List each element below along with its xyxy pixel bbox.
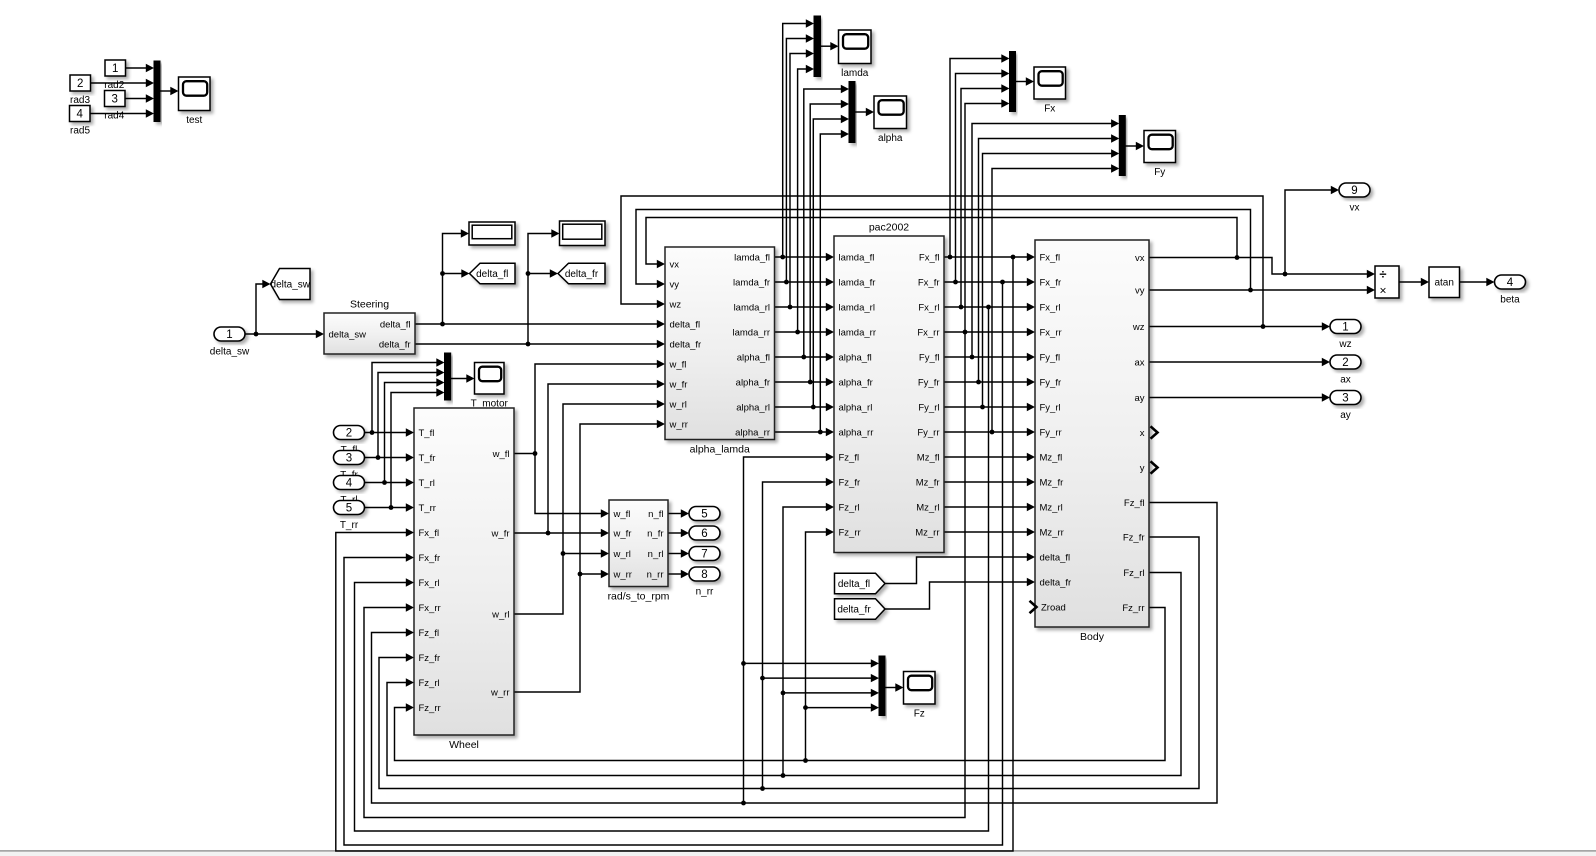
- wire vy feedback to alpha_lamda: [636, 210, 1251, 291]
- junction Fy tap Fy_fr: [976, 380, 981, 385]
- wire divide to atan: [1399, 281, 1422, 283]
- junction w_fl: [533, 451, 538, 456]
- svg-text:w_rr: w_rr: [669, 419, 688, 430]
- svg-text:rad4: rad4: [104, 110, 124, 121]
- wire Fz_fr to Fz mux: [763, 677, 872, 679]
- mux alpha: [849, 82, 855, 143]
- svg-text:delta_sw: delta_sw: [329, 329, 367, 340]
- wire Body wz to port 1: [1149, 326, 1323, 328]
- svg-text:ax: ax: [1340, 375, 1351, 386]
- svg-text:Fx_rr: Fx_rr: [1040, 327, 1062, 338]
- svg-text:Fx_rr: Fx_rr: [419, 603, 441, 614]
- wire alpha_lamda alpha_fr to pac2002: [775, 381, 827, 383]
- port 7 n_rl output: [689, 547, 720, 561]
- wire const rad2 to mux: [126, 67, 148, 69]
- wire lamda_fr tap to lamda mux: [786, 39, 806, 283]
- svg-text:Fy_rl: Fy_rl: [918, 402, 939, 413]
- svg-text:Mz_rl: Mz_rl: [916, 502, 939, 513]
- svg-text:ax: ax: [1134, 357, 1144, 368]
- wire pac2002 Fx_fl to Body: [944, 256, 1028, 258]
- junction Fz_rr to pac2002: [803, 758, 808, 763]
- svg-text:delta_fr: delta_fr: [1040, 577, 1072, 588]
- port 1 delta_sw input: [210, 327, 250, 358]
- port 2 ax output: [1330, 355, 1361, 386]
- Zroad unconnected chevron: [1030, 601, 1037, 613]
- svg-text:pac2002: pac2002: [869, 222, 909, 234]
- constant rad5: [70, 106, 91, 122]
- svg-text:delta_fl: delta_fl: [380, 319, 411, 330]
- svg-text:9: 9: [1351, 185, 1357, 197]
- wire alpha_lamda lamda_fr to pac2002: [775, 281, 827, 283]
- svg-text:2: 2: [1342, 357, 1348, 369]
- wire Wheel w_fl stub: [514, 453, 535, 455]
- svg-text:n_rl: n_rl: [648, 549, 664, 560]
- scope test: [179, 77, 211, 126]
- svg-text:w_fr: w_fr: [669, 379, 688, 390]
- wire Fx_fl tap to Fx mux: [950, 59, 1002, 258]
- svg-text:Fz_fl: Fz_fl: [1124, 498, 1145, 509]
- svg-text:Fz_fr: Fz_fr: [419, 653, 441, 664]
- junction Fx tap Fx_fr: [953, 280, 958, 285]
- svg-text:w_fl: w_fl: [613, 509, 631, 520]
- wire pac2002 Fy_fl to Body: [944, 356, 1028, 358]
- wire Wheel w_fr to rad/s: [514, 532, 602, 534]
- wire const rad5 to mux: [90, 113, 148, 115]
- junction Fz_rr to Fz mux: [803, 705, 808, 710]
- junction T_rr tap: [389, 505, 394, 510]
- subsystem Wheel: [414, 408, 514, 751]
- wire alpha_lamda lamda_rr to pac2002: [775, 331, 827, 333]
- svg-text:w_rr: w_rr: [613, 569, 632, 580]
- mux T_motor: [445, 353, 451, 400]
- svg-text:Mz_rl: Mz_rl: [1040, 502, 1063, 513]
- wire T_rr tap to T_motor mux: [391, 393, 437, 508]
- port 4 beta output: [1495, 275, 1526, 306]
- svg-text:Fz_rl: Fz_rl: [1123, 568, 1144, 579]
- junction lamda_fr tap: [784, 280, 789, 285]
- wire Fy_rr tap to Fy mux: [992, 169, 1112, 433]
- goto tag delta_fl: [470, 263, 516, 284]
- svg-text:wz: wz: [669, 299, 682, 310]
- junction w_fr: [546, 531, 551, 536]
- wire Fz_fl up to pac2002: [744, 457, 827, 803]
- from tag delta_fr: [835, 599, 886, 620]
- svg-text:alpha_rr: alpha_rr: [839, 427, 874, 438]
- wire Fz mux to scope: [885, 687, 896, 689]
- svg-text:test: test: [186, 115, 202, 126]
- svg-text:Zroad: Zroad: [1041, 602, 1066, 613]
- subsystem alpha_lamda: [665, 247, 775, 456]
- junction lamda_rl tap: [788, 305, 793, 310]
- svg-text:T_fl: T_fl: [419, 428, 435, 439]
- wire w_fr to alpha_lamda: [548, 384, 658, 533]
- port 8 n_rr output: [689, 567, 720, 598]
- svg-text:n_fr: n_fr: [647, 528, 663, 539]
- svg-text:wz: wz: [1338, 339, 1351, 350]
- svg-text:vy: vy: [1135, 285, 1145, 296]
- junction Fz_fl to pac2002: [741, 801, 746, 806]
- wire pac2002 Fx_fr to Body: [944, 281, 1028, 283]
- wire port to Wheel T_fl: [365, 432, 407, 434]
- svg-text:alpha_rr: alpha_rr: [735, 427, 770, 438]
- svg-text:delta_fl: delta_fl: [1040, 552, 1071, 563]
- wire rad/s n_rl to port: [668, 553, 682, 555]
- svg-text:y: y: [1140, 463, 1145, 474]
- junction delta_fl branch: [440, 322, 445, 327]
- svg-text:Fy_rr: Fy_rr: [917, 427, 939, 438]
- wire Fy_rl tap to Fy mux: [983, 154, 1112, 408]
- wire alpha_lamda lamda_rl to pac2002: [775, 306, 827, 308]
- junction alpha_rr tap: [818, 430, 823, 435]
- svg-text:Fx_fr: Fx_fr: [918, 277, 940, 288]
- junction alpha_rl tap: [811, 405, 816, 410]
- x output unconnected chevron: [1151, 426, 1158, 438]
- wire pac2002 Mz_fl to Body: [944, 456, 1028, 458]
- wire branch delta_fl to display1: [443, 234, 462, 325]
- wire alpha_rr tap to alpha mux: [820, 134, 841, 432]
- wire alpha mux to scope: [855, 111, 867, 113]
- svg-text:ay: ay: [1134, 393, 1144, 404]
- svg-text:alpha_fr: alpha_fr: [736, 377, 770, 388]
- wire Fz_rl up to pac2002: [783, 507, 827, 776]
- svg-text:Fy_fl: Fy_fl: [919, 352, 940, 363]
- svg-text:rad5: rad5: [70, 125, 90, 136]
- svg-text:w_fl: w_fl: [492, 449, 510, 460]
- svg-text:lamda: lamda: [841, 68, 869, 79]
- wire const rad4 to mux: [125, 98, 148, 100]
- wire rad/s n_rl to port: [668, 532, 682, 534]
- junction wz feedback: [1261, 324, 1266, 329]
- svg-text:Fy_rr: Fy_rr: [1040, 427, 1062, 438]
- wire alpha_fr tap to alpha mux: [810, 104, 841, 382]
- wire Body ay to port 3: [1149, 397, 1323, 399]
- svg-text:lamda_rl: lamda_rl: [734, 302, 770, 313]
- svg-text:Mz_fl: Mz_fl: [1040, 452, 1063, 463]
- svg-text:2: 2: [77, 78, 83, 90]
- wire T_fr tap to T_motor mux: [378, 373, 437, 458]
- scope Fx: [1034, 67, 1066, 115]
- divide block: [1375, 266, 1399, 298]
- wire Body Fz_fr feedback to Wheel: [379, 537, 1199, 789]
- port 6 n_fr output: [689, 526, 720, 540]
- wire branch delta_fr to display2: [528, 234, 552, 345]
- wire T_fl tap to T_motor mux: [372, 363, 437, 433]
- wire Fx mux to scope: [1016, 81, 1027, 83]
- svg-text:wz: wz: [1132, 322, 1145, 333]
- svg-text:rad2: rad2: [104, 80, 124, 91]
- junction Fx tap Fx_fl: [948, 255, 953, 260]
- wire pac2002 Fx_rl to Body: [944, 306, 1028, 308]
- wire Steering delta_fl to alpha_lamda: [415, 323, 658, 325]
- svg-text:w_rl: w_rl: [613, 549, 631, 560]
- junction delta_fl tag branch: [440, 271, 445, 276]
- junction delta_fr branch: [526, 342, 531, 347]
- svg-text:x: x: [1140, 428, 1145, 439]
- wire w_rr to alpha_lamda: [580, 424, 658, 574]
- wire Fx_rl tap to Fx mux: [961, 89, 1002, 308]
- svg-text:5: 5: [701, 509, 707, 521]
- wire Fy mux to scope: [1125, 145, 1136, 147]
- mux lamda: [814, 16, 821, 77]
- port 4 T_rl input: [334, 476, 365, 507]
- junction vy feedback: [1248, 288, 1253, 293]
- junction lamda_rr tap: [795, 330, 800, 335]
- junction Fx_rl feedback tap: [986, 305, 991, 310]
- svg-text:5: 5: [346, 503, 352, 515]
- wire pac2002 Fy_rl to Body: [944, 406, 1028, 408]
- junction alpha_fr tap: [808, 380, 813, 385]
- wire alpha_lamda alpha_rr to pac2002: [775, 431, 827, 433]
- wire port to Wheel T_rr: [365, 507, 407, 509]
- svg-text:1: 1: [226, 329, 232, 341]
- svg-text:Fy_fr: Fy_fr: [918, 377, 940, 388]
- wire Fy_fl tap to Fy mux: [972, 124, 1112, 358]
- constant rad4: [105, 91, 126, 107]
- svg-text:alpha_lamda: alpha_lamda: [690, 444, 750, 456]
- wire wz feedback to alpha_lamda: [621, 196, 1263, 327]
- wire Wheel w_rr to rad/s: [514, 574, 602, 692]
- wire w_fl to alpha_lamda: [535, 364, 658, 454]
- svg-text:lamda_fl: lamda_fl: [839, 252, 875, 263]
- junction Fy tap Fy_rl: [980, 405, 985, 410]
- svg-text:Fx_rl: Fx_rl: [419, 578, 440, 589]
- junction Fz_fl to Fz mux: [741, 661, 746, 666]
- svg-text:Fy_rl: Fy_rl: [1040, 402, 1061, 413]
- port 1 wz output: [1330, 320, 1361, 351]
- svg-text:n_fl: n_fl: [648, 509, 663, 520]
- junction Fx_fr feedback tap: [1000, 280, 1005, 285]
- svg-text:Wheel: Wheel: [449, 739, 479, 751]
- svg-text:Fz_rl: Fz_rl: [419, 678, 440, 689]
- wire T_motor mux to scope: [451, 378, 467, 380]
- junction Fy tap Fy_fl: [970, 355, 975, 360]
- display display2: [560, 221, 606, 246]
- svg-text:lamda_fr: lamda_fr: [733, 277, 770, 288]
- svg-text:Fx_rl: Fx_rl: [1040, 302, 1061, 313]
- svg-text:lamda_rl: lamda_rl: [839, 302, 875, 313]
- junction T_fr tap: [376, 455, 381, 460]
- svg-text:Mz_fr: Mz_fr: [1040, 477, 1064, 488]
- wire Steering delta_fr to alpha_lamda: [415, 343, 658, 345]
- svg-text:Steering: Steering: [350, 299, 389, 311]
- junction Fx_fl feedback tap: [1011, 255, 1016, 260]
- wire alpha_fl tap to alpha mux: [804, 89, 842, 357]
- svg-text:lamda_fr: lamda_fr: [839, 277, 876, 288]
- svg-text:Fx_fr: Fx_fr: [419, 553, 441, 564]
- svg-text:÷: ÷: [1379, 267, 1386, 282]
- wire Fx_rr tap to Fx mux: [965, 104, 1002, 333]
- wire atan to port 4: [1460, 281, 1488, 283]
- wire pac2002 Fx_rr to Body: [944, 331, 1028, 333]
- svg-text:lamda_rr: lamda_rr: [733, 327, 771, 338]
- svg-text:delta_sw: delta_sw: [210, 347, 250, 358]
- svg-text:w_fl: w_fl: [669, 359, 687, 370]
- wire branch to goto delta_fl: [443, 273, 463, 275]
- mux Fy: [1119, 116, 1125, 176]
- goto tag delta_fr: [558, 263, 605, 284]
- svg-text:w_fr: w_fr: [613, 528, 632, 539]
- svg-text:delta_fr: delta_fr: [379, 339, 411, 350]
- wire Body ax to port 2: [1149, 361, 1323, 363]
- junction vx to port 9: [1283, 272, 1288, 277]
- canvas bottom boundary: [0, 850, 1596, 852]
- svg-text:2: 2: [346, 428, 352, 440]
- svg-text:Fz_rr: Fz_rr: [419, 703, 441, 714]
- junction T_fl tap: [370, 430, 375, 435]
- svg-text:w_rl: w_rl: [491, 609, 509, 620]
- wire w_fl to rad/s: [535, 454, 602, 514]
- svg-text:4: 4: [76, 109, 83, 121]
- junction Fx tap Fx_rr: [963, 330, 968, 335]
- svg-text:alpha_fl: alpha_fl: [839, 352, 872, 363]
- svg-text:alpha_fl: alpha_fl: [737, 352, 770, 363]
- wire w_rl to alpha_lamda: [563, 404, 658, 554]
- port 9 vx output: [1339, 183, 1370, 214]
- svg-text:Mz_fl: Mz_fl: [917, 452, 940, 463]
- constant rad2: [105, 60, 126, 76]
- svg-text:Fz_rr: Fz_rr: [1122, 603, 1144, 614]
- junction w_rl: [561, 551, 566, 556]
- wire Fz_rl to Fz mux: [783, 692, 872, 694]
- junction w_rr: [578, 572, 583, 577]
- svg-text:Fz_fr: Fz_fr: [1123, 532, 1145, 543]
- wire vx feedback to alpha_lamda: [646, 218, 1237, 265]
- mux Fx: [1010, 52, 1016, 112]
- wire pac2002 Fy_fr to Body: [944, 381, 1028, 383]
- subsystem rad/s_to_rpm: [608, 500, 670, 603]
- port 3 ay output: [1330, 391, 1361, 422]
- svg-text:T_fr: T_fr: [419, 453, 436, 464]
- wire alpha_lamda alpha_rl to pac2002: [775, 406, 827, 408]
- wire Fz_fr up to pac2002: [763, 482, 827, 789]
- svg-text:n_rr: n_rr: [696, 587, 714, 598]
- svg-text:×: ×: [1379, 284, 1386, 298]
- goto tag delta_sw: [271, 269, 311, 300]
- port 5 n_fl output: [689, 507, 720, 521]
- svg-text:delta_sw: delta_sw: [271, 280, 311, 291]
- wire alpha_lamda lamda_fl to pac2002: [775, 256, 827, 258]
- wire port to Wheel T_rl: [365, 482, 407, 484]
- wire Fz_fl to Fz mux: [744, 662, 872, 664]
- wire pac2002 Mz_fr to Body: [944, 481, 1028, 483]
- svg-text:Body: Body: [1080, 631, 1105, 643]
- wire Fx_fr tap to Fx mux: [956, 74, 1003, 283]
- constant rad3: [70, 75, 91, 91]
- svg-text:Mz_rr: Mz_rr: [1040, 527, 1064, 538]
- wire from delta_fr to Body: [885, 582, 1028, 609]
- wire lamda mux to scope: [821, 45, 832, 47]
- svg-text:Mz_rr: Mz_rr: [915, 527, 939, 538]
- wire port1 to Steering: [245, 333, 317, 335]
- svg-text:3: 3: [111, 94, 117, 106]
- atan block: [1429, 267, 1460, 298]
- wire Body Fz_rl feedback to Wheel: [387, 573, 1181, 776]
- junction vx feedback: [1235, 255, 1240, 260]
- wire pac2002 Mz_rl to Body: [944, 506, 1028, 508]
- svg-text:w_rl: w_rl: [669, 399, 687, 410]
- wire Fy_fr tap to Fy mux: [979, 139, 1112, 383]
- svg-text:Fx_fl: Fx_fl: [919, 252, 940, 263]
- junction Fz_fr to pac2002: [760, 786, 765, 791]
- svg-text:Fz_fl: Fz_fl: [419, 628, 440, 639]
- wire Body vx to divide: [1149, 258, 1368, 275]
- wire pac2002 Fy_rr to Body: [944, 431, 1028, 433]
- svg-text:4: 4: [1507, 277, 1514, 289]
- svg-text:Fy: Fy: [1154, 167, 1165, 178]
- svg-text:T_rl: T_rl: [419, 478, 435, 489]
- port 3 T_fr input: [334, 451, 365, 482]
- svg-text:T_rr: T_rr: [340, 520, 359, 531]
- svg-text:Fx_rr: Fx_rr: [917, 327, 939, 338]
- svg-text:Fy_fr: Fy_fr: [1040, 377, 1062, 388]
- svg-text:beta: beta: [1500, 295, 1520, 306]
- port 5 T_rr input: [334, 501, 365, 532]
- svg-text:Fx_fl: Fx_fl: [419, 528, 440, 539]
- svg-text:3: 3: [346, 453, 352, 465]
- junction Fx tap Fx_rl: [959, 305, 964, 310]
- svg-text:Mz_fr: Mz_fr: [916, 477, 940, 488]
- svg-text:4: 4: [346, 478, 353, 490]
- junction delta_fr tag branch: [526, 271, 531, 276]
- subsystem Body: [1035, 240, 1149, 643]
- svg-text:w_fr: w_fr: [491, 528, 510, 539]
- svg-text:alpha_fr: alpha_fr: [839, 377, 873, 388]
- wire Fx_fl feedback to Wheel: [336, 257, 1013, 851]
- scope lamda: [839, 30, 872, 79]
- svg-text:ay: ay: [1340, 410, 1351, 421]
- subsystem Steering: [324, 299, 415, 355]
- wire alpha_lamda alpha_fl to pac2002: [775, 356, 827, 358]
- junction alpha_fl tap: [801, 355, 806, 360]
- junction Fy tap Fy_rr: [990, 430, 995, 435]
- junction T_rl tap: [382, 480, 387, 485]
- junction Fz_fr to Fz mux: [760, 676, 765, 681]
- wire branch to goto delta_sw: [256, 284, 263, 334]
- port 2 T_fl input: [334, 426, 365, 457]
- svg-text:delta_fl: delta_fl: [670, 319, 701, 330]
- wire Fz_rr to Fz mux: [806, 707, 872, 709]
- y output unconnected chevron: [1151, 461, 1158, 473]
- svg-text:lamda_fl: lamda_fl: [734, 252, 770, 263]
- junction Fz_rl to pac2002: [781, 773, 786, 778]
- svg-text:6: 6: [701, 528, 707, 540]
- wire Body Fz_rr feedback to Wheel: [395, 608, 1166, 761]
- svg-text:7: 7: [701, 549, 707, 561]
- svg-text:delta_fr: delta_fr: [670, 339, 702, 350]
- wire Body Fz_fl feedback to Wheel: [372, 503, 1218, 804]
- svg-text:Fz_rl: Fz_rl: [839, 502, 860, 513]
- wire const rad3 to mux: [90, 82, 147, 84]
- wire alpha_rl tap to alpha mux: [813, 119, 841, 407]
- svg-text:3: 3: [1342, 393, 1348, 405]
- svg-text:vx: vx: [1350, 203, 1360, 214]
- svg-text:Fx: Fx: [1044, 104, 1055, 115]
- svg-text:delta_fr: delta_fr: [565, 269, 599, 280]
- svg-text:Fx_fl: Fx_fl: [1040, 252, 1061, 263]
- wire lamda_fl tap to lamda mux: [783, 24, 807, 258]
- svg-text:vx: vx: [1135, 253, 1145, 264]
- svg-text:alpha_rl: alpha_rl: [736, 402, 770, 413]
- wire branch to goto delta_fr: [528, 273, 551, 275]
- svg-text:Fx_fr: Fx_fr: [1040, 277, 1062, 288]
- wire vx to port 9: [1285, 190, 1332, 274]
- svg-text:Fz_fr: Fz_fr: [839, 477, 861, 488]
- svg-text:vy: vy: [670, 279, 680, 290]
- svg-text:Fx_rl: Fx_rl: [918, 302, 939, 313]
- mux test: [154, 61, 160, 122]
- display display1: [469, 222, 515, 245]
- svg-text:alpha: alpha: [878, 133, 903, 144]
